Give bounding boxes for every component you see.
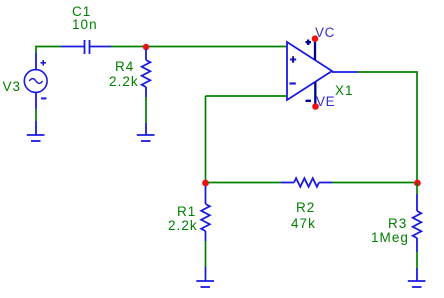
value 2.2k of R1	[168, 219, 198, 233]
label X1	[335, 84, 354, 98]
pin VC supply	[306, 40, 316, 61]
label V3	[3, 80, 22, 94]
label C1	[72, 5, 91, 19]
label R3	[388, 217, 407, 231]
wire node A to R2	[208, 182, 281, 184]
label R1	[177, 205, 196, 219]
wire R3 to ground	[416, 252, 418, 268]
wire V3 bottom to ground	[35, 109, 37, 121]
ground under R4	[137, 123, 155, 141]
label VE	[316, 95, 335, 109]
label R2	[296, 201, 315, 215]
capacitor C1	[61, 40, 111, 54]
ground under V3	[27, 121, 45, 141]
wire R1 to ground	[205, 241, 207, 267]
resistor R3	[413, 194, 422, 252]
pin VE supply	[306, 82, 316, 104]
node A junction R1/R2	[202, 180, 209, 187]
label VC	[315, 26, 335, 40]
value 2.2k of R4	[109, 75, 139, 89]
wire output to node B	[358, 72, 417, 183]
value 10n	[72, 18, 98, 32]
ground under R3	[408, 268, 426, 287]
wire opamp output lead	[332, 71, 358, 73]
wire C1 right to opamp + input	[111, 46, 287, 48]
wire R4 to ground	[145, 97, 147, 123]
label R4	[115, 60, 134, 74]
op-amp X1	[287, 42, 332, 100]
node junction C1/R4	[143, 44, 149, 50]
resistor R1	[201, 186, 210, 241]
voltage source V3	[24, 53, 47, 109]
value 1Meg	[371, 231, 409, 245]
ground under R1	[196, 267, 214, 287]
value 47k	[291, 217, 316, 231]
wire R2 to node B	[332, 182, 414, 184]
wire opamp - input horizontal	[206, 95, 288, 97]
node VC	[312, 35, 319, 42]
resistor R4	[142, 49, 151, 97]
wire node B to R3	[416, 183, 418, 194]
wire V3 top to C1 left	[36, 47, 61, 54]
resistor R2	[281, 178, 332, 187]
node VE	[312, 103, 319, 110]
wire inverting input down to node A	[205, 96, 207, 183]
node B junction R2/R3/output	[414, 180, 421, 187]
